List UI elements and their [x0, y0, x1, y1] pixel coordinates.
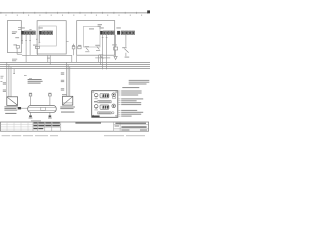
wire [102, 35, 104, 70]
terminal marks X2 [61, 72, 64, 90]
wire [47, 55, 49, 62]
arrow terminal [114, 56, 117, 59]
title bottom row text left [121, 130, 129, 131]
wire bus line L1 [0, 61, 150, 63]
slot label window 2 [98, 112, 111, 114]
enclosure inner box 2 [39, 26, 56, 46]
label K1 [20, 27, 24, 28]
label far left group [0, 76, 3, 82]
screw dot [95, 95, 98, 98]
callout leader 6 [118, 102, 141, 103]
wire [71, 55, 73, 62]
label K1 aux [29, 28, 31, 31]
screw dot [113, 94, 115, 96]
callout leader 7 [118, 104, 141, 105]
node tick marks on top bus [1, 12, 148, 14]
relay box [114, 47, 118, 50]
label under circle 2 [94, 109, 97, 112]
wire [100, 55, 102, 65]
terminal ticks chain3 [102, 37, 108, 39]
screw corner marks [93, 92, 117, 117]
wire bus line N [0, 68, 150, 70]
display U2 [100, 105, 109, 109]
wire [8, 65, 10, 97]
label inside panel 1 [12, 31, 17, 34]
wire element stub bottom right [49, 112, 51, 115]
wire [6, 62, 8, 97]
callout leader 8 [118, 110, 137, 111]
title bottom row text right [140, 130, 147, 131]
float switch SL1 [85, 46, 90, 52]
wire [125, 53, 127, 56]
breaker QF2 [78, 45, 82, 49]
wire stub rect B [66, 41, 68, 43]
wire top border bus [0, 12, 150, 14]
overload relay F1 [15, 37, 31, 40]
footer text row [2, 135, 145, 136]
screw circle mid-right [112, 104, 116, 108]
wire bus line L3 [0, 66, 150, 68]
label sensor [112, 44, 117, 45]
screw circle mid-left [94, 105, 98, 109]
terminal clamp top left [29, 93, 32, 96]
callout leader 3 [118, 95, 138, 96]
terminal clamp top right [48, 93, 51, 96]
panel nameplate [92, 116, 100, 118]
heating element E1 [28, 106, 57, 113]
label wire tag b [29, 77, 32, 80]
button SB4 [112, 112, 114, 114]
contactor K2 [39, 31, 52, 35]
wire [36, 49, 38, 56]
wire [115, 35, 117, 47]
screw circle top-left [94, 93, 98, 97]
contactor K3 [100, 31, 114, 35]
wire [115, 50, 117, 56]
wire [29, 35, 31, 55]
screw circle top-right [112, 93, 116, 97]
ground tick [13, 73, 15, 75]
auxiliary contact S1 [36, 39, 40, 43]
wire [38, 35, 40, 43]
wire [125, 35, 127, 47]
motor M1 fan box [7, 97, 18, 106]
wire feeder tail [76, 55, 78, 62]
label M1 [4, 106, 17, 114]
wire [97, 55, 99, 63]
callout leader 2 [118, 93, 141, 94]
breaker QF1 [18, 28, 21, 30]
wire element stub top left [30, 96, 32, 105]
wire element stub bottom left [30, 112, 32, 115]
title text drawing number [121, 126, 146, 127]
overload relay F3 [33, 45, 39, 49]
slot text 2 [99, 112, 110, 115]
wire [49, 55, 51, 65]
controller panel A1 [92, 91, 118, 118]
label bottom of panel 1 [12, 59, 17, 62]
label under circle 1 [94, 97, 97, 100]
button SB1 [112, 97, 115, 99]
wire [10, 67, 12, 97]
zone digits [6, 15, 143, 16]
wire bus line L2 [0, 64, 150, 66]
title small cell text [115, 126, 119, 127]
terminal lug bottom left [29, 115, 33, 118]
label wire number [47, 58, 50, 59]
callout leader 5 [118, 100, 136, 101]
plug P1 [18, 107, 29, 109]
wire [69, 67, 71, 97]
contactor K4 [117, 31, 134, 35]
enclosure panel box 1 [8, 21, 22, 53]
wire [65, 62, 67, 96]
label above title block [31, 119, 41, 122]
slot label window 1 [98, 101, 111, 103]
screw dot [95, 106, 98, 109]
note text block right [122, 80, 149, 88]
screw dot [113, 105, 115, 107]
terminal marks X1 [3, 82, 6, 92]
wire [67, 65, 69, 97]
wire horizontal link [22, 54, 72, 56]
title block outer [0, 122, 148, 131]
label K4 [116, 27, 120, 28]
pressure switch SP1 [122, 47, 128, 52]
note text block center [28, 79, 43, 84]
terminal mark [125, 57, 130, 58]
node corner marker [147, 10, 150, 13]
label M2 [60, 107, 75, 113]
callout leader 11 [118, 116, 131, 117]
enclosure panel box 2 [37, 21, 66, 54]
wire link right [95, 57, 110, 59]
callout leader 9 [118, 112, 143, 113]
title text company [75, 122, 101, 123]
auxiliary contact S2 [72, 44, 75, 56]
wire [25, 35, 27, 63]
terminal lug bottom right [48, 115, 52, 118]
title block revision grid [0, 122, 33, 131]
label K3 [99, 27, 103, 28]
overload relay F2 [13, 44, 22, 54]
callout leader 1 [118, 91, 141, 92]
display U1 [100, 94, 109, 98]
wire [106, 35, 108, 70]
callout leader 10 [118, 114, 141, 115]
callout leader 4 [118, 98, 143, 99]
wire [21, 35, 23, 44]
slot text 1 [99, 100, 110, 103]
switch cluster below box 3 [99, 54, 103, 58]
slot side label [94, 101, 97, 102]
enclosure panel box 3 [77, 21, 115, 56]
label above M2 [62, 94, 67, 95]
wire element stub top right [49, 96, 51, 105]
float switch SL2 [95, 45, 100, 51]
motor M2 fan box [63, 96, 73, 105]
ground stub wire [13, 69, 15, 74]
title text rev cell [115, 123, 146, 124]
label K2 [38, 27, 42, 28]
contactor K1 [21, 31, 35, 35]
label wire tag a [24, 74, 27, 77]
title block small texts [34, 122, 60, 129]
title block mid dividers [33, 122, 149, 131]
label inside panel 3 [89, 24, 102, 29]
enclosure inner box 3 [84, 26, 101, 47]
